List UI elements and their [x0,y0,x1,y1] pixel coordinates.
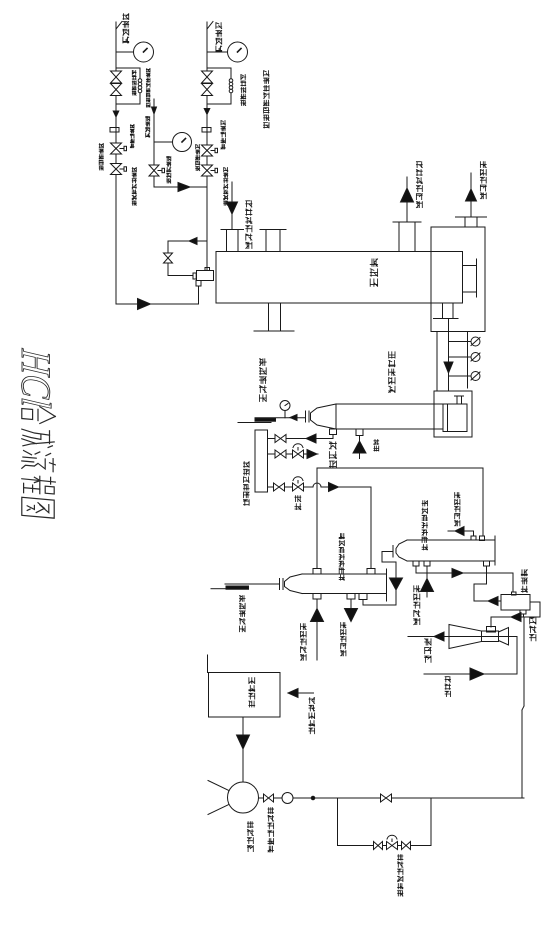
wire pilot hydrogen loop [168,241,207,276]
ejector suction box [487,627,496,633]
wire absorber gas line [317,468,483,569]
wire nitrogen purge line [154,99,207,187]
label 冷却水进口 2 [414,586,420,625]
cooling water outlet line [466,173,477,217]
label 尾气塔 [521,570,527,592]
control valve branch 2 [293,444,304,458]
graphite cooler inner box [443,404,467,432]
furnace legs [254,303,294,331]
label 氯气管道 [123,14,129,43]
flow arrow chlorine to burner [138,299,151,310]
burner flange [193,273,196,279]
wire acid return absorber2 to absorber1 [363,552,403,606]
label 氯气流量计 [130,125,134,148]
wire hydrogen gas main line [207,22,213,270]
furnace 合成炉 body [216,252,463,304]
orifice hydrogen flow element [202,128,211,133]
label 至成品酸罐 [260,359,267,402]
label 盐酸水泵 [247,822,253,852]
flow arrow branch 2 [307,450,317,459]
tank 高纯水槽 [208,655,281,717]
vessel absorber 2 shell [396,540,495,561]
label 循环热水出口 [416,162,422,208]
absorber 1 flange [280,579,284,590]
wire chlorine bypass loop [116,68,140,104]
furnace head tube sheet [463,259,477,297]
wire tail box right loop [491,602,540,627]
bypass fine valve balls [138,79,142,93]
absorber 1 top nozzle 2 [367,569,375,575]
wire pump discharge [259,797,525,799]
label 废酸水 [530,618,536,641]
label 补充高纯水 [309,698,315,734]
label 高纯水槽 [249,678,255,707]
wire absorber 2 nozzle 3 loop [474,566,501,606]
valve hydrogen manual regulating (double) [202,71,213,96]
title HCl合成流程图 [12,347,58,519]
valve nitrogen purge [149,165,165,176]
valve bypass block 1 [374,842,383,850]
graphite cooler box [434,391,472,437]
valve pilot [164,253,173,263]
wire chlorine line to burner [116,286,199,304]
vessel V0 flange [306,411,310,422]
tail gas box 尾气塔 [501,592,530,610]
vessel absorber 1 shell [285,574,387,594]
label 冷却水出口 [480,162,486,199]
wire tank to pump [237,717,250,781]
svg-text:HCl: HCl [12,347,58,410]
wire head to cooler pipes [437,319,468,392]
wire ejector outlet left [408,632,517,641]
valve header branch 1 [275,435,286,443]
flow meter pump [282,793,293,804]
V0 bottom nozzle 1 [330,429,337,439]
control valve branch 3 [293,477,304,491]
label 去转化 [329,442,336,468]
absorber 2 flange [392,546,394,558]
furnace top nozzle 1 [221,230,244,252]
label 喷射泵 [425,639,431,663]
flow indicator on nitrogen line [154,133,192,152]
bypass fine valve balls [229,79,233,93]
cooling water outlet absorber 1 [345,599,358,622]
label 旁路微调阀 [241,75,246,106]
furnace top nozzle 2 [260,230,286,252]
label 氢气管道 [216,23,222,52]
burner lower port [196,281,201,287]
wire absorber 2 acid to tail box [416,566,513,592]
valve chlorine manual regulating (double) [111,71,122,96]
label 一级降膜吸收塔 [339,534,344,581]
absorber 2 top nozzles [471,536,485,541]
cooling water inlet absorber 1 [311,599,324,660]
graphite cooler inner line [447,404,449,432]
label 氢气调节阀 [196,145,200,171]
furnace top nozzle 3 [393,222,421,252]
cooling water outlet absorber 2 [448,527,474,537]
label 氢气流量计 [221,121,225,149]
label 氯化氢分配台 [244,462,250,506]
ejector right cone [499,628,509,646]
valve bypass block 2 [402,842,411,850]
flow arrow branch 3 [329,483,339,492]
orifice chlorine flow element [110,128,119,133]
absorber 1 top nozzle 1 [313,569,321,575]
cooling water inlet absorber 2 [421,566,434,597]
label 氢气手动调节阀及 [264,71,269,128]
valve pump discharge [264,794,274,802]
wire makeup water feed [288,689,314,698]
hot water outlet line [401,177,414,222]
absorber 1 tube plate [386,569,388,601]
sampling rod [255,418,276,421]
wire circulating water line [424,668,517,680]
wire branch 3 to absorber [268,483,372,569]
furnace head [431,227,485,332]
header 氯化氢分配台 [255,430,268,492]
flow indicator on chlorine line [116,42,154,62]
label 至成品酸罐 2 [240,596,246,632]
label 盐酸水流量计 [268,808,274,852]
label 二级降膜吸收塔 [422,501,427,550]
label 盐酸水自控阀 [398,855,403,896]
absorber 2 tube plate [494,536,496,565]
flow arrow down nitrogen [152,107,157,114]
wire ejector to circulating water [516,637,518,675]
ejector left diffuser [449,625,482,649]
graphite cooler pi mark [455,396,464,403]
wire hydrogen bypass loop [207,68,231,104]
absorber 1 bottom nozzles [313,594,367,600]
valve chlorine regulating [111,143,127,154]
label 旁路微调阀 [132,71,136,96]
absorber 2 bottom nozzles [413,561,490,566]
flow arrow down chlorine [113,111,119,117]
label 氢气紧急切断阀 [224,168,228,206]
label 上塔 [295,496,301,510]
label 放空 [374,440,379,451]
valve hydrogen emergency shutoff [202,165,218,176]
label 合成炉 [370,259,377,286]
vessel V0 shell [311,404,444,429]
pump 盐酸水泵 [208,781,259,815]
sampling rod 2 [226,586,249,589]
tail box bottom nozzle [520,610,526,617]
flow indicator on hydrogen line [207,42,248,62]
hot water inlet line [227,182,238,229]
head top nozzle [456,217,487,227]
flow arrow to tail box [452,569,463,578]
label 氮气吹扫阀 [167,157,171,184]
label 循环热水进口 [246,201,252,249]
label 氮气管道 [146,117,150,138]
valve chlorine emergency shutoff [111,164,127,175]
valve branch 2 [275,450,286,458]
valve main line [381,794,392,802]
control valve bypass [387,835,398,849]
label 石墨冷却器 [389,352,395,393]
flow arrow down to cooler [444,362,453,373]
wire V0 outlet to product tank [238,415,306,423]
burner top neck [205,268,210,271]
pressure gauge [280,401,290,418]
wire waste acid water line [522,617,524,798]
junction node [311,796,315,800]
burner body [197,271,214,281]
wire V0 to distribution header [268,434,334,443]
wire chlorine gas main line [116,22,122,305]
ejector body [482,631,499,642]
flow arrow down hydrogen [204,109,210,115]
flow arrow nitrogen to hydrogen line [178,183,190,192]
valve hydrogen regulating [202,145,218,156]
label 循环水 [445,677,450,697]
flow arrow pilot left [189,238,197,245]
label 氯气手动调节阀及 [146,69,150,108]
valve branch 3 [274,483,285,491]
label 氯气紧急切断阀 [132,168,136,206]
label 冷却水出口 2 [341,623,346,656]
instrument taps [449,342,472,377]
head bottom stub [434,303,459,319]
instrument bubbles [471,337,480,381]
wire absorber 1 acid outlet [211,584,280,589]
V0 bottom nozzle 2 vent [353,429,366,459]
wire control bypass [338,798,432,846]
label 氯气调节阀 [99,144,103,171]
label 冷却水出口 3 [455,493,460,526]
label 冷却水进口 [301,624,307,661]
wire branch 2 to conversion [268,453,319,455]
